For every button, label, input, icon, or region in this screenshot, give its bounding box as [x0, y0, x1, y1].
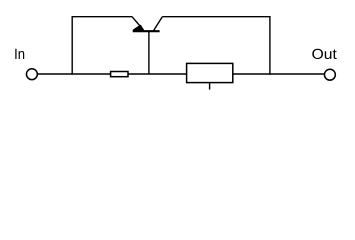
wire left vertical riser	[71, 16, 73, 75]
wire resistor R1 to block U1	[129, 73, 187, 75]
transistor Q1 emitter arrowhead	[133, 25, 143, 30]
terminal In	[26, 69, 37, 80]
terminal Out	[324, 69, 335, 80]
block U1 bottom pin stub	[209, 83, 211, 89]
resistor R1	[111, 72, 128, 77]
transistor Q1 collector lead	[153, 17, 162, 32]
wire top rail Q1 collector to right	[162, 16, 270, 18]
transistor Q1 base lead	[148, 32, 150, 75]
wire In terminal to resistor R1	[38, 73, 111, 75]
wire top rail left to Q1 emitter	[72, 16, 133, 18]
block U1	[187, 63, 233, 82]
node In label	[15, 49, 24, 59]
wire block U1 to Out terminal	[233, 73, 325, 75]
transistor Q1 emitter lead	[132, 17, 144, 30]
transistor Q1 base bar	[133, 30, 160, 32]
wire right vertical riser	[269, 16, 271, 75]
node Out label	[312, 49, 336, 59]
